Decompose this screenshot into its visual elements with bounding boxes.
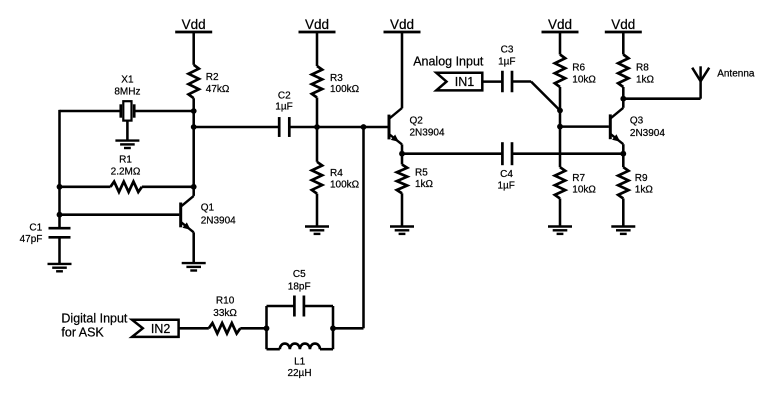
capacitor C1 47pF — [20, 222, 71, 245]
wire node B to Q1 collector node — [192, 127, 195, 187]
wire R2 to node A — [192, 98, 195, 111]
svg-text:Vdd: Vdd — [548, 17, 572, 32]
wire Vdd1 to R2 — [192, 33, 195, 65]
junction node B (C2 tap) — [191, 124, 197, 130]
svg-text:IN2: IN2 — [151, 322, 171, 336]
svg-text:Digital Input: Digital Input — [61, 311, 128, 325]
wire C2 to node E — [289, 126, 317, 129]
resistor R8 — [618, 55, 654, 88]
wire Q1 base lead — [60, 213, 180, 216]
svg-text:IN1: IN1 — [455, 75, 475, 89]
svg-text:R4: R4 — [330, 168, 343, 179]
crystal X1 8MHz — [114, 75, 140, 121]
wire node E to node F — [317, 126, 364, 129]
svg-text:22µH: 22µH — [287, 368, 311, 379]
junction node M (tank right) — [330, 325, 336, 331]
svg-text:10kΩ: 10kΩ — [572, 185, 596, 196]
resistor R7 — [555, 167, 597, 198]
svg-text:47pF: 47pF — [20, 234, 43, 245]
capacitor C3 1&#181;F — [498, 45, 515, 93]
inductor L1 22&#181;H — [280, 344, 320, 379]
resistor R2 — [189, 65, 230, 98]
svg-text:L1: L1 — [294, 356, 306, 367]
svg-text:R8: R8 — [636, 62, 649, 73]
svg-text:for ASK: for ASK — [61, 326, 104, 340]
wire left rail to node D — [58, 187, 61, 215]
wire R10 to node L — [240, 327, 266, 330]
wire tank top right — [304, 305, 333, 308]
label Digital Input for ASK — [61, 311, 128, 339]
svg-text:2N3904: 2N3904 — [630, 128, 665, 139]
junction node C (R1 left) — [57, 184, 63, 190]
svg-text:C5: C5 — [293, 269, 306, 280]
wire node M right — [333, 327, 364, 330]
svg-text:Analog Input: Analog Input — [413, 55, 484, 69]
svg-text:2N3904: 2N3904 — [201, 216, 236, 227]
svg-text:X1: X1 — [121, 75, 134, 86]
wire node G to R5 — [401, 154, 404, 165]
transistor Q3 2N3904 — [610, 108, 665, 144]
svg-text:2N3904: 2N3904 — [410, 127, 445, 138]
svg-text:10kΩ: 10kΩ — [572, 75, 596, 86]
wire crystal right lead — [134, 110, 194, 113]
wire node E to R4 — [316, 127, 319, 162]
power Vdd V5 — [605, 17, 642, 32]
wire C3 diagonal to node H — [531, 82, 560, 111]
svg-text:1µF: 1µF — [275, 102, 292, 113]
wire node I to R7 — [559, 127, 562, 168]
ground under R7 — [548, 199, 572, 234]
power Vdd V2 — [299, 17, 336, 32]
svg-text:R2: R2 — [206, 72, 219, 83]
resistor R4 — [312, 162, 360, 194]
wire R6 to node H — [559, 87, 562, 111]
wire node K to R9 — [622, 154, 625, 168]
svg-text:R9: R9 — [635, 173, 648, 184]
svg-text:C1: C1 — [29, 222, 42, 233]
power Vdd V3 — [384, 17, 421, 32]
wire tank bottom right — [320, 348, 333, 351]
transistor Q2 2N3904 — [389, 108, 445, 144]
junction Q1 collector node — [191, 184, 197, 190]
svg-text:R1: R1 — [119, 154, 132, 165]
resistor R9 — [618, 167, 653, 198]
junction node H (R6 bottom) — [557, 108, 563, 114]
wire tank top left — [267, 305, 295, 308]
wire IN1 to C3 — [482, 80, 502, 83]
svg-text:R6: R6 — [572, 62, 585, 73]
resistor R6 — [555, 55, 597, 88]
svg-text:1µF: 1µF — [497, 180, 514, 191]
junction node G (Q2 emitter) — [399, 151, 405, 157]
wire Q1 emitter down — [192, 232, 195, 262]
junction node E (R3/R4) — [314, 124, 320, 130]
wire left rail down — [58, 110, 61, 187]
svg-text:1µF: 1µF — [498, 56, 515, 67]
wire R8 to node J — [622, 87, 625, 99]
junction node F (tank tap) — [361, 124, 367, 130]
wire Q3 emitter to node K — [622, 144, 625, 154]
wire tank bottom left — [267, 348, 280, 351]
label Analog Input — [413, 55, 484, 69]
svg-text:1kΩ: 1kΩ — [415, 179, 434, 190]
capacitor C5 18pF — [288, 269, 311, 316]
wire Vdd5 to R8 — [622, 33, 625, 55]
wire IN2 to R10 — [179, 327, 209, 330]
ground under R5 — [390, 193, 414, 234]
wire crystal left lead — [60, 110, 121, 113]
svg-text:R3: R3 — [330, 73, 343, 84]
wire R1 right lead — [142, 186, 194, 189]
wire node I to Q3 base — [560, 125, 609, 128]
svg-text:R5: R5 — [415, 167, 428, 178]
ground under crystal X1 — [115, 121, 139, 149]
junction node A (crystal/R2) — [191, 108, 197, 114]
resistor R5 — [397, 165, 434, 194]
wire Vdd2 to R3 — [316, 33, 319, 66]
svg-text:100kΩ: 100kΩ — [330, 179, 360, 190]
wire C3 right lead — [512, 80, 531, 83]
resistor R10 — [209, 296, 241, 334]
ground under Q1 emitter — [182, 263, 206, 270]
wire Q1 collector up — [192, 187, 195, 196]
svg-text:Q2: Q2 — [410, 116, 424, 127]
resistor R1 — [111, 154, 142, 192]
capacitor C2 1&#181;F — [275, 90, 292, 137]
svg-text:Vdd: Vdd — [611, 17, 635, 32]
svg-text:Vdd: Vdd — [182, 17, 206, 32]
svg-text:33kΩ: 33kΩ — [213, 308, 237, 319]
wire Vdd3 to Q2 collector — [401, 33, 404, 108]
wire Vdd4 to R6 — [559, 33, 562, 55]
svg-text:C4: C4 — [500, 169, 513, 180]
wire tank right vertical — [332, 306, 335, 349]
svg-text:Q1: Q1 — [201, 202, 215, 213]
svg-text:R10: R10 — [216, 296, 235, 307]
resistor R3 — [312, 66, 360, 98]
capacitor C4 1&#181;F — [497, 142, 514, 191]
svg-text:Q3: Q3 — [630, 116, 644, 127]
svg-text:47kΩ: 47kΩ — [206, 84, 230, 95]
wire Q2 emitter to node G — [401, 144, 404, 153]
wire node A to node B — [192, 111, 195, 127]
svg-text:R7: R7 — [572, 173, 585, 184]
wire node J to Q3 collector — [622, 99, 625, 108]
junction node I (Q3 base tap) — [557, 124, 563, 130]
transistor Q1 2N3904 — [181, 196, 236, 232]
input port IN2 — [132, 320, 179, 337]
junction node L (tank left) — [264, 325, 270, 331]
svg-text:Antenna: Antenna — [717, 68, 755, 79]
wire R1 left lead — [60, 186, 111, 189]
svg-text:1kΩ: 1kΩ — [636, 75, 655, 86]
svg-text:C2: C2 — [278, 90, 291, 101]
svg-text:100kΩ: 100kΩ — [330, 84, 360, 95]
antenna — [692, 66, 755, 98]
power Vdd V4 — [542, 17, 579, 32]
ground under R9 — [611, 199, 635, 234]
wire R3 to node E — [316, 98, 319, 128]
junction node D (C1 top / Q1 base) — [57, 212, 63, 218]
junction node J (Q3 collector) — [620, 96, 626, 102]
svg-text:8MHz: 8MHz — [114, 86, 140, 97]
power Vdd V1 — [175, 17, 212, 32]
wire tank left vertical — [265, 306, 268, 349]
wire node D to C1 — [58, 215, 61, 229]
wire node F to Q2 base — [364, 126, 388, 129]
wire node J to antenna — [623, 97, 700, 100]
svg-text:Vdd: Vdd — [390, 17, 414, 32]
svg-text:C3: C3 — [501, 45, 514, 56]
input port IN1 — [436, 73, 482, 91]
wire C4 to node K — [512, 152, 623, 155]
svg-text:18pF: 18pF — [288, 281, 311, 292]
ground under R4 — [305, 194, 329, 234]
wire node G to C4 — [402, 152, 502, 155]
ground under C1 — [48, 237, 72, 271]
junction node K (Q3 emitter) — [620, 151, 626, 157]
svg-text:2.2MΩ: 2.2MΩ — [111, 167, 141, 178]
wire node H to node I — [559, 111, 562, 127]
wire node B to C2 — [194, 126, 280, 129]
wire tank rail up to node F — [362, 127, 365, 328]
svg-text:1kΩ: 1kΩ — [635, 185, 654, 196]
svg-text:Vdd: Vdd — [305, 17, 329, 32]
